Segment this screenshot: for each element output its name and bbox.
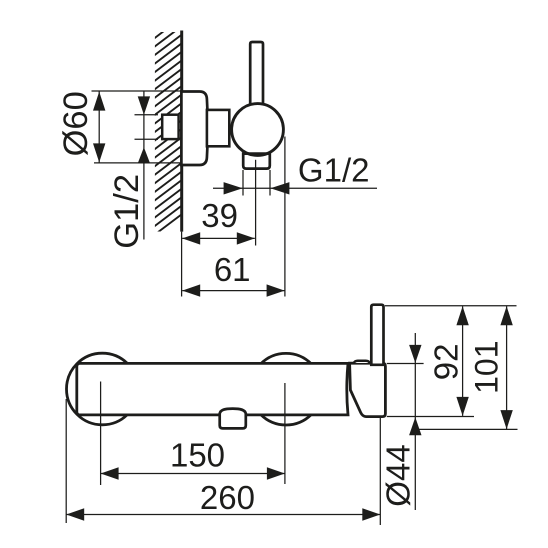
dim Ø60 bottom extension line — [94, 162, 181, 164]
G1/2 inlet up arrow — [138, 147, 150, 163]
dim Ø60 upper arrow — [93, 92, 105, 111]
body right extension line — [284, 137, 286, 297]
connector cylinder (side view) — [207, 110, 229, 146]
svg-text:150: 150 — [170, 437, 225, 474]
wall section hatching — [146, 1, 192, 241]
dim 39 right arrow — [237, 232, 255, 244]
dim 150 right arrow — [267, 467, 285, 479]
svg-text:61: 61 — [214, 251, 251, 288]
overall height extension line — [415, 428, 517, 430]
body left extension line — [65, 399, 67, 523]
dim 61 right arrow — [267, 284, 285, 296]
right rosette circle (front view) — [250, 353, 322, 425]
svg-text:G1/2: G1/2 — [298, 152, 370, 189]
mixer body circle (side view) — [232, 104, 284, 156]
G1/2 inlet down arrow — [138, 96, 150, 114]
wall flange rosette (side view) — [181, 92, 207, 166]
dim 39 dimension line — [182, 237, 255, 239]
handle base block (front view) — [350, 363, 386, 416]
wall face extension line — [181, 232, 183, 297]
inlet top extension line — [135, 114, 159, 116]
svg-text:39: 39 — [201, 197, 238, 234]
dim 92 dimension line — [462, 306, 464, 416]
mixer body bar (front view) — [77, 363, 348, 415]
body top extension line — [387, 363, 424, 365]
inlet connector G1/2 (in wall) — [162, 115, 178, 139]
aerator (front view) — [220, 409, 246, 429]
dim 92 bottom arrow — [456, 397, 468, 416]
dim 101 dimension line — [506, 306, 508, 429]
handle collar lip (front view) — [354, 361, 370, 363]
dim 260 right arrow — [362, 508, 380, 520]
dim Ø44 up arrow — [409, 417, 421, 435]
stem top extension line — [385, 305, 517, 307]
svg-text:101: 101 — [469, 341, 505, 394]
dim 61 left arrow — [182, 284, 200, 296]
svg-text:G1/2: G1/2 — [108, 174, 146, 249]
G1/2 outlet left arrow — [224, 182, 243, 194]
dim Ø44 leader line — [414, 333, 416, 510]
outlet right extension line — [269, 170, 271, 196]
body bottom extension line — [387, 416, 474, 418]
dim 150 left arrow — [101, 467, 119, 479]
handle lever (side view) — [250, 42, 263, 110]
dim Ø60 dimension line — [98, 91, 100, 163]
G1/2 outlet leader underline — [213, 187, 377, 189]
handle right extension line — [379, 418, 381, 526]
dim 260 dimension line — [66, 514, 380, 516]
left rosette circle (front view) — [67, 353, 139, 425]
G1/2 inlet leader line — [143, 91, 145, 240]
svg-text:92: 92 — [428, 344, 465, 381]
outlet spout (side view) — [243, 154, 270, 169]
dim 101 bottom arrow — [500, 410, 512, 429]
dim 150 dimension line — [101, 473, 285, 475]
dim 39 left arrow — [182, 232, 200, 244]
dim 101 top arrow — [500, 306, 512, 325]
G1/2 outlet right arrow — [270, 182, 289, 194]
outlet center extension line — [255, 160, 257, 246]
dim Ø60 lower arrow — [93, 143, 105, 162]
svg-text:Ø44: Ø44 — [380, 444, 417, 506]
dim Ø44 down arrow — [409, 345, 421, 363]
wall face line — [180, 31, 183, 232]
svg-text:260: 260 — [200, 479, 255, 516]
dim 92 top arrow — [456, 306, 468, 325]
inlet bottom extension line — [135, 138, 159, 140]
outlet left extension line — [242, 170, 244, 196]
dim Ø60 top extension line — [92, 90, 182, 92]
dim 61 dimension line — [182, 290, 284, 292]
right rosette center extension line — [284, 383, 286, 484]
left rosette center extension line — [100, 382, 102, 486]
dim 260 left arrow — [66, 508, 84, 520]
svg-text:Ø60: Ø60 — [57, 91, 95, 156]
handle stem (front view) — [371, 305, 383, 365]
